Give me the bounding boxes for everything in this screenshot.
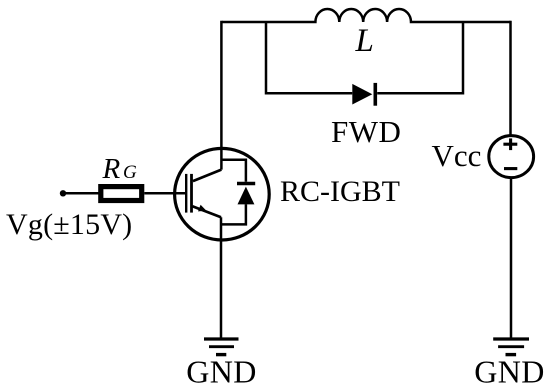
svg-text:G: G — [123, 162, 137, 183]
svg-text:R: R — [102, 153, 121, 185]
svg-text:FWD: FWD — [331, 114, 401, 149]
svg-text:GND: GND — [186, 353, 257, 389]
svg-text:RC-IGBT: RC-IGBT — [280, 175, 400, 208]
svg-text:L: L — [355, 23, 374, 59]
svg-text:GND: GND — [474, 353, 545, 389]
svg-text:Vcc: Vcc — [432, 138, 482, 173]
svg-text:Vg(±15V): Vg(±15V) — [6, 208, 132, 241]
